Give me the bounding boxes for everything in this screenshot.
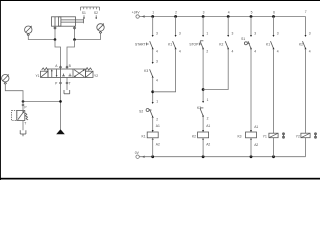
svg-text:T: T [69, 82, 71, 86]
wire node to valve port B [67, 40, 75, 70]
wire arrow [202, 35, 204, 37]
frame border left [0, 0, 2, 180]
wire valve P line down [60, 77, 62, 129]
pushbutton STOP (NC) [189, 41, 203, 49]
wire arrow [273, 35, 275, 37]
solenoid coil Y2 [296, 133, 310, 138]
svg-text:K2: K2 [299, 42, 303, 46]
svg-text:4: 4 [156, 49, 158, 53]
svg-text:S2: S2 [94, 11, 98, 15]
svg-text:Y1: Y1 [35, 74, 39, 78]
port diamond relief valve P [22, 104, 24, 106]
svg-text:5: 5 [251, 10, 253, 14]
wire arrow [152, 76, 154, 78]
wire arrow [227, 35, 229, 37]
junction bottom bus / branch 5 [250, 155, 253, 158]
wire rail7 mid [305, 49, 307, 134]
solenoid coil Y1 [263, 133, 278, 138]
svg-text:3: 3 [156, 31, 158, 35]
relay coil K3 [237, 132, 256, 138]
wire rail1 mid1 [152, 49, 154, 63]
wire arrow [305, 35, 307, 37]
wire valve T to exhaust [66, 77, 68, 90]
solenoid Y2 pilot box (right) [86, 71, 94, 77]
svg-text:Y2: Y2 [296, 134, 300, 138]
wire rail7 top [305, 17, 307, 37]
port diamond cylinder right [73, 27, 75, 29]
svg-text:T: T [24, 122, 26, 126]
svg-text:A1: A1 [156, 124, 160, 128]
wire arrow [250, 138, 252, 140]
pressure relief valve 0V1 [12, 111, 29, 121]
wire rail2 to latch node [153, 49, 176, 92]
right position crossed arrows [74, 70, 84, 77]
svg-text:4: 4 [179, 49, 181, 53]
wire gauge Z1 to node [28, 36, 55, 40]
wire rail3 mid [202, 49, 204, 102]
wire arrow [142, 156, 145, 158]
center position blocked [62, 75, 65, 77]
svg-text:6: 6 [273, 10, 275, 14]
wire rail5 top [250, 17, 252, 37]
wire arrow [250, 130, 252, 132]
svg-text:4: 4 [277, 49, 279, 53]
wire arrow [175, 35, 177, 37]
wire arrow [152, 62, 154, 64]
wire arrow [175, 47, 177, 49]
wire relief valve to exhaust [22, 121, 24, 131]
node latch junction [151, 90, 154, 93]
wire rail7 bottom [305, 138, 307, 157]
relay contact K1 (NO) [266, 41, 273, 48]
port diamond cylinder left [54, 27, 56, 29]
wire arrow [152, 35, 154, 37]
junction top bus / branch 1 [151, 15, 154, 18]
svg-text:1: 1 [207, 98, 209, 102]
wire arrow [202, 138, 204, 140]
relay coil K1 [142, 132, 159, 138]
wire cylinder left port down [54, 26, 56, 39]
wire node down to relief valve [22, 101, 24, 110]
svg-text:START: START [135, 42, 146, 46]
cylinder 1A1 (double-acting) [52, 17, 84, 26]
0V supply terminal [135, 151, 145, 159]
distance ruler scale above cylinder [81, 7, 100, 11]
wire arrow [202, 115, 204, 117]
wire rail1 mid3 [152, 117, 154, 132]
Y2 plug marker [315, 133, 317, 139]
svg-text:7: 7 [305, 10, 307, 14]
svg-text:K2: K2 [219, 42, 223, 46]
port diamond valve A [60, 66, 62, 68]
svg-text:2: 2 [206, 49, 208, 53]
wire arrow [152, 47, 154, 49]
svg-text:K1: K1 [266, 42, 270, 46]
bottom bus wire [139, 156, 305, 158]
svg-text:1: 1 [206, 31, 208, 35]
junction top bus / branch 3 [202, 15, 205, 18]
wire rail3 top [202, 17, 204, 37]
wire rail1 bottom [152, 138, 154, 157]
wire arrow [152, 102, 154, 104]
svg-text:4: 4 [254, 49, 256, 53]
exhaust symbol under T [64, 90, 70, 94]
svg-text:K2: K2 [192, 134, 196, 138]
frame border top [0, 0, 320, 1]
wire arrow [273, 47, 275, 49]
svg-text:S2: S2 [139, 109, 143, 113]
wire arrow [152, 130, 154, 132]
svg-text:3: 3 [254, 31, 256, 35]
solenoid Y1 pilot box (left) [41, 71, 49, 77]
top bus wire [139, 16, 305, 18]
svg-text:3: 3 [232, 31, 234, 35]
svg-text:3: 3 [309, 31, 311, 35]
wire rail1 mid2 [152, 77, 154, 103]
node junction left (cyl A line) [54, 38, 57, 41]
wire arrow [152, 138, 154, 140]
wire rail3 mid2 [202, 116, 204, 132]
Y1 plug marker [283, 133, 285, 139]
svg-text:2: 2 [156, 118, 158, 122]
reed switch S1 (NO proximity) [241, 37, 251, 48]
valve 1V1 4/3-way solenoid valve body [48, 69, 86, 77]
junction bottom bus / branch 6 [272, 155, 275, 158]
svg-text:A2: A2 [254, 143, 258, 147]
svg-text:STOP: STOP [189, 42, 199, 46]
wire arrow [250, 47, 252, 49]
wire rail3 bottom [202, 138, 204, 157]
node rail3/rail4 junction [202, 88, 205, 91]
junction top bus / branch 6 [272, 15, 275, 18]
wire P branch horizontal [23, 100, 61, 102]
sensor S1 label on ruler [82, 11, 86, 18]
svg-text:S1: S1 [82, 11, 86, 15]
svg-text:K1: K1 [142, 134, 146, 138]
svg-text:+24V: +24V [132, 11, 141, 15]
svg-text:4: 4 [156, 78, 158, 82]
relay contact K2 (NO latch) [219, 41, 228, 48]
wire rail5 mid [250, 49, 252, 132]
wire arrow [142, 15, 145, 17]
svg-text:2: 2 [175, 10, 177, 14]
svg-text:K3: K3 [237, 134, 241, 138]
svg-text:2: 2 [207, 117, 209, 121]
svg-text:A1: A1 [254, 125, 258, 129]
relay contact K1 (NO latch) [168, 41, 175, 48]
relay contact K3 (NO) [144, 69, 153, 77]
svg-text:K1: K1 [168, 42, 172, 46]
svg-text:4: 4 [232, 49, 234, 53]
wire arrow [202, 130, 204, 132]
svg-text:3: 3 [203, 10, 205, 14]
node P-branch right [59, 100, 62, 103]
junction bottom bus / branch 3 [202, 155, 205, 158]
svg-text:A1: A1 [206, 124, 210, 128]
spring left (valve) [42, 68, 48, 71]
spring right (valve) [86, 68, 92, 71]
svg-text:S1: S1 [241, 37, 245, 41]
svg-text:Y2: Y2 [94, 74, 98, 78]
wire rail6 mid [273, 49, 275, 134]
node P-branch left [22, 100, 25, 103]
pressure gauge Z1 (left of cylinder) [25, 26, 32, 36]
compressed air supply triangle [56, 129, 65, 134]
+24V supply terminal [132, 11, 145, 19]
wire cylinder right port down [74, 26, 76, 39]
relay contact K2 (NO) [299, 41, 306, 48]
svg-text:1: 1 [156, 99, 158, 103]
exhaust symbol under relief valve [20, 130, 26, 136]
svg-text:Y1: Y1 [263, 134, 267, 138]
port diamond valve B [66, 66, 68, 68]
wire arrow [202, 47, 204, 49]
junction top bus / branch 4 [227, 15, 230, 18]
sensor S2 label on ruler [94, 11, 98, 18]
junction bottom bus / branch 1 [151, 155, 154, 158]
relay coil K2 [192, 132, 209, 138]
left position arrows [51, 70, 53, 77]
pressure gauge Z2 (right of cylinder) [97, 23, 104, 33]
svg-text:3: 3 [156, 59, 158, 63]
frame border bottom [0, 178, 320, 180]
wire rail1 top [152, 17, 154, 37]
wire rail5 bottom [250, 138, 252, 157]
wire arrow [152, 116, 154, 118]
wire arrow [202, 101, 204, 103]
svg-text:4: 4 [309, 49, 311, 53]
wire gauge Z2 to node [75, 33, 101, 39]
junction top bus / branch 5 [250, 15, 253, 18]
pressure gauge Z3 (bottom left) [2, 74, 9, 84]
wire node to valve port A [55, 40, 61, 70]
wire arrow [250, 35, 252, 37]
wire gauge Z3 to node [5, 84, 23, 101]
wire arrow [305, 47, 307, 49]
reed switch S2 (NO proximity) [139, 109, 153, 117]
wire rail6 bottom [273, 138, 275, 157]
wire arrow [227, 47, 229, 49]
wire rail4 top [227, 17, 229, 37]
port diamond valve P [60, 82, 62, 84]
node junction right (cyl B line) [73, 38, 76, 41]
port diamond valve T [66, 82, 68, 84]
wire rail2 top [175, 17, 177, 37]
wire rail6 top [273, 17, 275, 37]
svg-text:A2: A2 [156, 143, 160, 147]
svg-text:4: 4 [228, 10, 230, 14]
svg-text:3: 3 [179, 31, 181, 35]
svg-text:A2: A2 [206, 143, 210, 147]
svg-text:1: 1 [152, 10, 154, 14]
pushbutton START (NO) [135, 41, 153, 48]
junction top bus / branch 2 [174, 15, 177, 18]
wire rail4 to rail3 node [203, 49, 228, 90]
svg-text:K3: K3 [144, 69, 148, 73]
relay contact K3 (NC) [197, 106, 203, 116]
svg-text:3: 3 [277, 31, 279, 35]
